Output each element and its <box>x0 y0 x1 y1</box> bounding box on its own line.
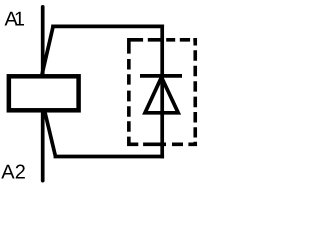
suppression module dashed enclosure <box>129 40 195 145</box>
diode D1 triangle (anode, pointing up) <box>145 77 178 113</box>
wire: top horizontal run to diode module <box>51 25 164 29</box>
wire: A1 terminal vertical <box>41 7 45 80</box>
wire: diagonal link from A2 node to diode branch <box>44 110 55 157</box>
wire: A2 terminal vertical <box>41 108 45 181</box>
wire: diagonal link from A1 node to diode branch <box>42 26 53 74</box>
diode D1 cathode bar <box>140 74 182 78</box>
wire: right vertical drop through diode module <box>160 25 164 159</box>
coil K1 (relay coil rectangle) <box>9 76 79 110</box>
svg-text:A2: A2 <box>1 162 26 184</box>
wire: bottom horizontal run from diode module <box>54 155 164 159</box>
